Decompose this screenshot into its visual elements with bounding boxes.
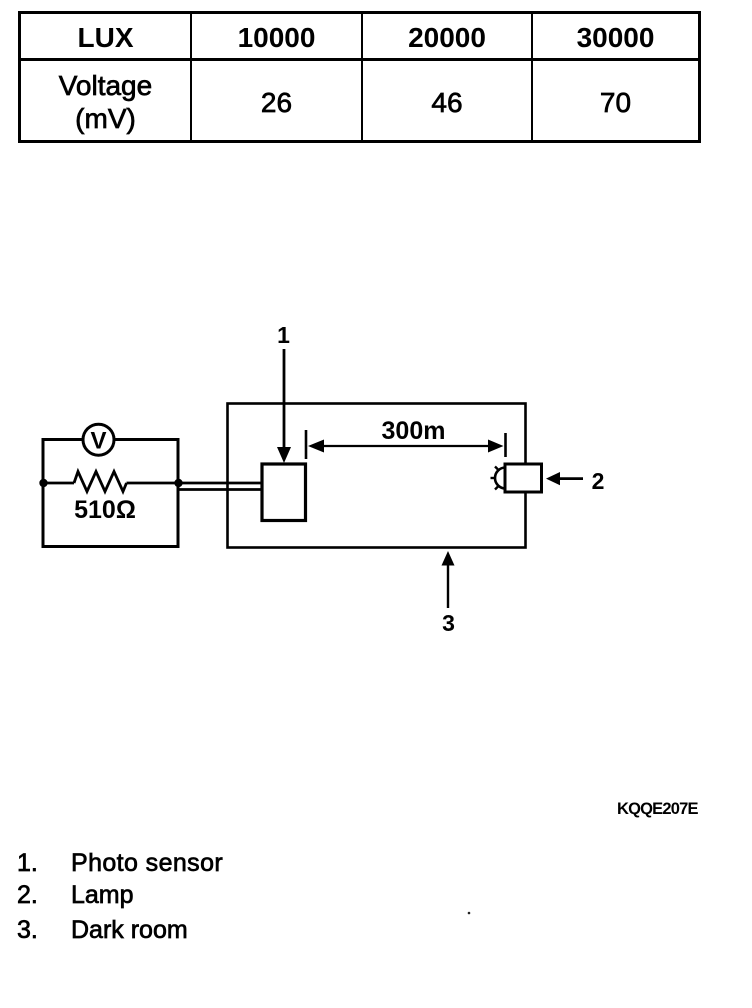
svg-text:3: 3 [442, 610, 455, 636]
lamp ray ticks [495, 467, 499, 471]
table: LUX vs Voltage [18, 11, 701, 143]
svg-text:KQQE207E: KQQE207E [617, 800, 699, 818]
wire: upper lead to photo sensor [178, 482, 262, 485]
junction dot right [174, 479, 182, 487]
svg-text:V: V [90, 428, 106, 455]
voltmeter V circle [83, 424, 114, 455]
legend list [0, 848, 400, 850]
arrow 2 head [546, 472, 560, 485]
wire: lower lead to photo sensor [180, 488, 262, 491]
dark room [228, 404, 526, 548]
resistor R 510ohm zigzag [74, 472, 127, 492]
svg-text:2: 2 [592, 468, 605, 494]
arrow 3 shaft [447, 564, 449, 608]
arrow 2 shaft [559, 477, 583, 480]
junction dot left [39, 479, 47, 487]
svg-text:1: 1 [277, 322, 290, 348]
lamp box [505, 464, 542, 492]
photo sensor box [262, 464, 306, 521]
wire: middle horizontal right segment [127, 482, 179, 485]
left loop (voltmeter + resistor circuit) [43, 440, 178, 547]
svg-text:510Ω: 510Ω [74, 496, 136, 524]
dimension line 300m [322, 445, 490, 447]
dimension right arrowhead [488, 440, 504, 453]
svg-text:300m: 300m [382, 417, 446, 445]
arrow 1 head [277, 447, 291, 463]
lamp rays arc [495, 468, 506, 489]
dimension left arrowhead [308, 440, 324, 453]
stray speck [468, 912, 471, 915]
wire: middle horizontal left segment [43, 482, 74, 485]
dimension right tick [504, 433, 507, 457]
arrow 3 head [442, 551, 455, 566]
dimension left tick [305, 430, 308, 459]
arrow 1 shaft [283, 349, 286, 449]
